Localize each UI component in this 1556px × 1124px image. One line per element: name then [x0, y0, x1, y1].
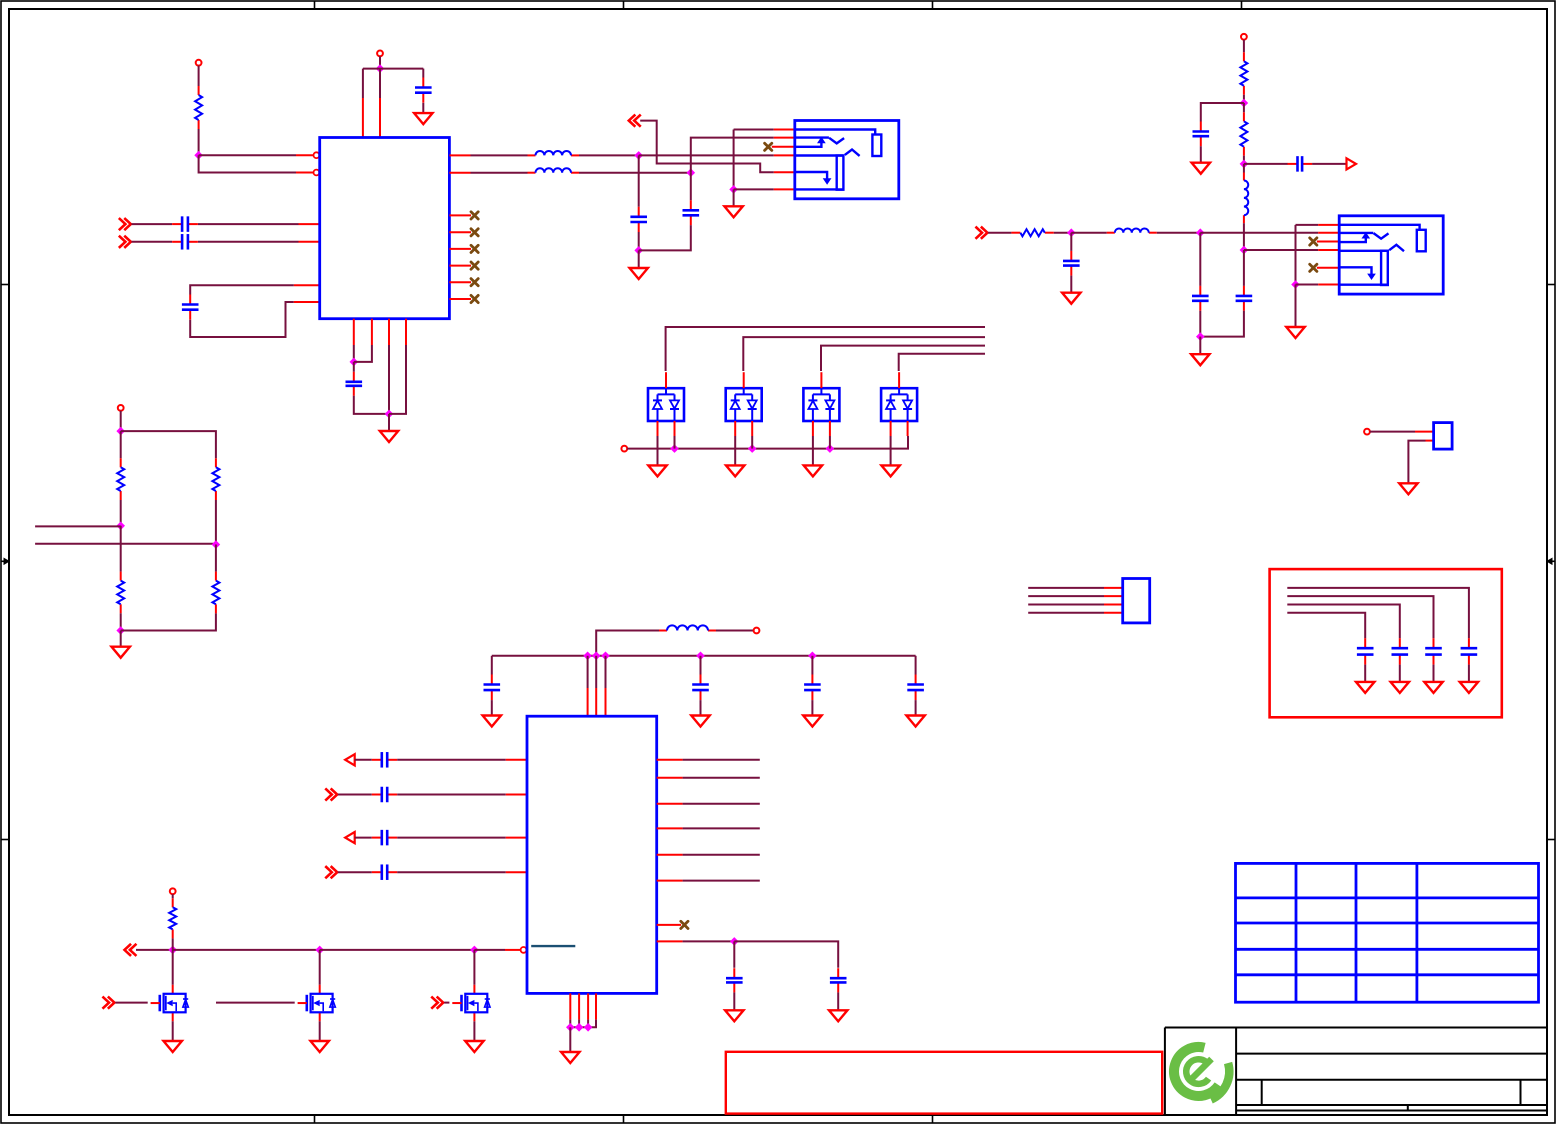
input port chevron C20 row — [326, 789, 337, 799]
ground C23 — [1460, 682, 1478, 693]
capacitor C19 — [372, 752, 397, 768]
node K junction — [826, 444, 835, 453]
node W2 junction — [808, 652, 817, 661]
ground C26 — [1356, 682, 1374, 693]
wire D2 pin to rail — [751, 436, 753, 449]
pin stub U1 pin2 — [296, 172, 313, 174]
capacitor C10 — [1063, 251, 1080, 276]
pin stub J2 pin5 — [1317, 267, 1339, 269]
wire U2 right net 3 — [683, 803, 760, 805]
resistor R9 — [169, 898, 176, 938]
pin stub U2 bottom 4 — [595, 993, 597, 1019]
wire L5 to node R — [1243, 223, 1245, 250]
wire node E to C6 — [638, 155, 640, 206]
power port P7 — [118, 405, 124, 411]
ground node H — [724, 206, 742, 217]
node I junction — [670, 444, 679, 453]
wire rail to C14 — [700, 656, 702, 675]
capacitor C16 — [907, 675, 924, 701]
capacitor C8 — [1193, 122, 1210, 147]
capacitor C7 — [683, 200, 700, 225]
power port P14 — [170, 888, 176, 894]
wire P7 to node L — [120, 411, 122, 431]
pin stub U1 top pin B — [379, 98, 381, 138]
pin stub U1 pin4 — [299, 241, 320, 243]
wire C18 to ground — [837, 992, 839, 1010]
group box bottom — [726, 1052, 1162, 1114]
ground Q2 — [311, 1041, 329, 1052]
wire C25 to ground — [1399, 665, 1401, 682]
frame ticks — [314, 1, 316, 9]
power port P2 — [377, 51, 383, 57]
no-connect flag U1 nc 3 — [471, 245, 478, 252]
wire R2 to node P — [1243, 95, 1245, 103]
wire C13 to ground — [491, 700, 493, 715]
wire J1 pin1 link — [734, 129, 774, 131]
wire P3 to C2 — [132, 223, 173, 225]
wire L2 to node F — [579, 172, 691, 174]
power port P8 — [1241, 34, 1247, 40]
wire U2 power rail — [492, 655, 916, 657]
ground C14 — [691, 716, 709, 727]
wire rail drop 1 — [587, 656, 589, 688]
wire P10 to R4 — [988, 232, 1011, 234]
inductor L4 — [659, 625, 716, 630]
no-connect flag U1 nc 2 — [471, 229, 478, 236]
node R junction — [1240, 246, 1249, 255]
pin stub U2 bottom 1 — [569, 993, 571, 1019]
wire node Q to L5 — [1243, 164, 1245, 173]
wire node to Q2 drain — [319, 950, 321, 985]
wire J4 net 3 — [1028, 604, 1104, 606]
wire node D to ground — [388, 414, 390, 431]
wire C9 to port P9 — [1312, 163, 1346, 165]
pin stub U1 nc pin 1 — [449, 214, 471, 216]
wire P8 to R2 — [1243, 40, 1245, 53]
pin stub U2 C21 row — [506, 837, 527, 839]
wire rail drop 2 — [595, 656, 597, 688]
wire C10 to ground — [1070, 276, 1072, 293]
wire C11 to node S — [1199, 311, 1201, 337]
pin stub U2 top 1 — [587, 688, 589, 716]
wire C12 to node S — [1200, 311, 1244, 337]
wire net MIC2 to D4 — [899, 354, 985, 371]
node rail2 junction — [601, 652, 610, 661]
wire U1 bpin1 to node C — [353, 345, 355, 362]
wire node V to J2 pin6 — [1296, 284, 1319, 286]
capacitor C5 — [346, 372, 363, 396]
capacitor C4 — [182, 295, 199, 320]
wire node X2 to node X3 — [320, 949, 475, 951]
wire node to Q1 drain — [172, 950, 174, 985]
gate port chevron Q1 — [103, 997, 114, 1007]
resistor R8 — [212, 572, 219, 614]
diode D3 — [803, 372, 839, 436]
pin stub J4 pin 2 — [1104, 595, 1123, 597]
wire rail to C13 — [491, 656, 493, 675]
wire C3 to U1 pin4 — [198, 241, 299, 243]
wire port to C21 — [355, 837, 372, 839]
wire node B left drop — [362, 69, 364, 98]
wire P14 to R9 — [172, 894, 174, 898]
pin stub U1 nc pin 5 — [449, 281, 471, 283]
IC U2 body — [527, 716, 657, 993]
wire node B center drop — [379, 69, 381, 98]
ground D4 — [881, 465, 899, 476]
capacitor C15 — [804, 675, 821, 701]
resistor R1 — [195, 86, 202, 129]
transistor Q1 — [151, 985, 189, 1022]
no-connect flag J1 pin3 — [765, 143, 772, 150]
inductor L2 — [528, 168, 580, 172]
wire node L to R5 — [120, 431, 122, 458]
ground D1 — [648, 465, 666, 476]
wire P13 to node X1 — [136, 949, 173, 951]
power port P11 — [1364, 429, 1370, 435]
diode D4 — [881, 372, 917, 436]
wire J4 net 2 — [1028, 595, 1104, 597]
wire node V to ground — [1295, 285, 1297, 328]
pin stub U1 nc pin 3 — [449, 248, 471, 250]
wire box net 4 — [1287, 613, 1365, 639]
pin stub J2 pin1 — [1318, 224, 1339, 226]
wire node S to ground — [1199, 337, 1201, 355]
output port C21 row — [345, 832, 355, 843]
pin stub J4 pin 4 — [1104, 612, 1123, 614]
wire node N bottom rail — [121, 613, 216, 630]
wire left input 2 — [35, 543, 216, 545]
capacitor C13 — [484, 675, 501, 701]
wire box net 1 — [1287, 588, 1469, 638]
frame left center arrow — [1, 560, 6, 562]
node A junction — [194, 151, 203, 160]
pin stub J1 pin6 — [774, 188, 795, 190]
mic port chevron P10 — [976, 228, 987, 238]
pin stub J4 pin 3 — [1104, 604, 1123, 606]
wire D1 gnd drop — [657, 436, 659, 465]
pin stub U1 pin5 — [294, 284, 320, 286]
capacitor C25 — [1392, 638, 1409, 664]
pin stub U1 bottom pin3 — [388, 319, 390, 345]
output port P9 — [1347, 158, 1357, 169]
capacitor C14 — [692, 675, 709, 701]
wire D3 pin to rail — [829, 436, 831, 449]
revision table — [1236, 863, 1539, 1002]
pin stub U2 right 1 — [657, 759, 683, 761]
wire U1 rpin2 to L2 — [471, 172, 528, 174]
wire U1 bpin2 to node C — [354, 345, 372, 362]
node C junction — [350, 358, 359, 367]
wire port to C19 — [355, 759, 372, 761]
ground J3 — [1399, 483, 1417, 494]
pin stub U2 vref pin — [657, 940, 683, 942]
EasyEDA logo — [1174, 1047, 1229, 1100]
ground U1 bottom — [380, 431, 398, 442]
node D junction — [385, 410, 394, 419]
wire D1 pin to rail — [674, 436, 676, 449]
wire R4 to node T — [1054, 232, 1072, 234]
wire U2 bottom bus 3 — [587, 1020, 589, 1028]
frame right center arrow — [1550, 560, 1555, 562]
connector J4 — [1123, 579, 1150, 623]
wire box net 3 — [1287, 605, 1400, 639]
pin stub U2 right 5 — [657, 854, 683, 856]
pin stub J1 pin4 — [774, 154, 795, 156]
wire Q3 source to ground — [473, 1021, 475, 1041]
wire R6 to node N — [120, 613, 122, 630]
node X3 junction — [470, 946, 479, 955]
wire node H to ground — [733, 189, 735, 206]
wire rail to C16 — [915, 656, 917, 675]
capacitor C9 — [1288, 156, 1313, 172]
wire L3 to node U — [1157, 232, 1201, 234]
pin stub J1 pin5 — [774, 171, 795, 173]
wire U2 right net 5 — [683, 854, 760, 856]
node L junction — [116, 427, 125, 436]
pin stub U1 bottom pin4 — [405, 319, 407, 345]
wire D2 gnd drop — [734, 436, 736, 465]
capacitor C26 — [1357, 638, 1374, 664]
wire J4 net 4 — [1028, 612, 1104, 614]
wire left input 1 — [35, 525, 121, 527]
wire gate Q1 — [115, 1002, 147, 1004]
wire P5 to J1 pin5 — [640, 121, 774, 173]
wire U2 vref to node Y — [683, 940, 735, 942]
ground C25 — [1391, 682, 1409, 693]
wire C23 to ground — [1468, 665, 1470, 682]
pin stub U1 pin6 — [294, 301, 320, 303]
node rail0 junction — [583, 652, 592, 661]
resistor R5 — [117, 458, 124, 500]
ground C24 — [1424, 682, 1442, 693]
no-connect flag U1 nc 1 — [471, 212, 478, 219]
node E junction — [634, 151, 643, 160]
wire R9 to node X1 — [172, 938, 174, 950]
gate port chevron Q3 — [432, 997, 443, 1007]
ground divider — [112, 647, 130, 658]
node F junction — [687, 168, 696, 177]
wire C6 to node G — [638, 232, 640, 250]
ground node S — [1191, 354, 1209, 365]
U2 internal mark — [531, 945, 575, 947]
diode D1 — [648, 372, 684, 436]
wire C17 to ground — [733, 992, 735, 1010]
wire C5 to node D — [354, 396, 389, 414]
input port chevron C22 row — [326, 867, 337, 877]
wire node H to J1 pin6 — [734, 188, 774, 190]
wire node P to R3 — [1243, 103, 1245, 112]
resistor R7 — [212, 458, 219, 500]
pin bubble U1 pin2 — [314, 170, 320, 176]
pin stub J1 pin2 — [774, 137, 795, 139]
node W1 junction — [696, 652, 705, 661]
no-connect flag U2 — [681, 921, 688, 928]
no-connect flag U1 nc 6 — [471, 295, 478, 302]
wire node F up to J1 pin2 — [691, 138, 774, 173]
wire node U to C11 — [1199, 233, 1201, 286]
pin stub U2 nc pin — [657, 924, 681, 926]
wire node M to R6 — [120, 526, 122, 572]
wire U1 pin5 to C4 — [190, 285, 294, 294]
node N junction — [116, 626, 125, 635]
wire node Z to ground — [569, 1027, 571, 1052]
wire U1 bpin4 to node D — [389, 345, 406, 414]
pin stub U1 pin1 — [296, 154, 313, 156]
ground C17 — [725, 1010, 743, 1021]
wire U2 bottom bus — [569, 1020, 571, 1028]
wire J1 pin1 drop — [733, 130, 735, 190]
wire port to C20 — [338, 794, 372, 796]
wire node R to C12 — [1243, 250, 1245, 286]
wire C16 to ground — [915, 700, 917, 715]
ground C1 — [414, 113, 432, 124]
wire R3 to node Q — [1243, 156, 1245, 164]
wire node A to U1 pin 1 — [199, 154, 296, 156]
ground D2 — [726, 465, 744, 476]
wire rail to C15 — [811, 656, 813, 675]
pin stub U2 C22 row — [506, 871, 527, 873]
pin stub J2 pin3 — [1317, 241, 1339, 243]
ground node V — [1286, 327, 1304, 338]
ground Q1 — [164, 1041, 182, 1052]
node Z3 junction — [584, 1023, 593, 1032]
node J junction — [748, 444, 757, 453]
wire ESD rail — [627, 436, 908, 449]
ground node G — [630, 268, 648, 279]
wire P11 to J3 pin1 — [1370, 431, 1415, 433]
wire node P to C8 — [1201, 103, 1244, 122]
wire node X3 to U2 en pin — [474, 949, 505, 951]
node G junction — [634, 246, 643, 255]
node S junction — [1196, 332, 1205, 341]
wire box net 2 — [1287, 596, 1433, 638]
wire P1 to R1 — [198, 66, 200, 86]
wire node B rail — [363, 68, 423, 70]
capacitor C6 — [630, 207, 647, 232]
wire J2 pin1 drop — [1295, 225, 1297, 285]
wire L4 to port P12 — [716, 630, 754, 632]
pin stub J2 pin6 — [1318, 284, 1339, 286]
wire R7 to node O — [215, 500, 217, 545]
node X1 junction — [168, 946, 177, 955]
wire gate Q2 — [216, 1002, 295, 1004]
wire R5 to node M — [120, 500, 122, 526]
pin stub U1 bottom pin1 — [353, 319, 355, 345]
wire U1 rpin1 to L1 — [471, 154, 528, 156]
wire node O to R8 — [215, 545, 217, 572]
transistor Q2 — [298, 985, 336, 1022]
pin stub U2 right 4 — [657, 827, 683, 829]
wire J2 pin1 link — [1296, 224, 1319, 226]
receive port chevron P5 — [629, 115, 640, 125]
node B junction — [376, 64, 385, 73]
pin stub U1 right pin2 — [449, 172, 470, 174]
pin stub U2 top 3 — [605, 688, 607, 716]
wire node N to ground — [120, 631, 122, 647]
pin stub U2 top 2 — [595, 688, 597, 716]
pin stub U2 right 2 — [657, 777, 683, 779]
wire rail up link — [596, 631, 667, 656]
transistor Q3 — [452, 985, 490, 1022]
node H junction — [729, 185, 738, 194]
no-connect flag U1 nc 5 — [471, 279, 478, 286]
pin stub U2 C19 row — [506, 759, 527, 761]
input port chevron P4 — [120, 237, 131, 247]
input port chevron P3 — [120, 219, 131, 229]
wire U2 right net 4 — [683, 827, 760, 829]
node V junction — [1291, 280, 1300, 289]
wire Q2 source to ground — [319, 1021, 321, 1041]
wire node Q to C9 — [1244, 163, 1288, 165]
wire node X1 to node X2 — [173, 949, 320, 951]
wire net HPL to D1 — [666, 327, 985, 371]
pin stub U1 top pin A — [362, 98, 364, 138]
diode D2 — [726, 372, 762, 436]
node X2 junction — [315, 946, 324, 955]
pin stub U1 bottom pin2 — [371, 319, 373, 345]
ground D3 — [804, 465, 822, 476]
pin stub J2 pin2 — [1318, 232, 1339, 234]
capacitor C2 — [172, 216, 198, 232]
no-connect flag U1 nc 4 — [471, 262, 478, 269]
wire P2 to node B — [379, 56, 381, 68]
wire node E to J1 pin4 — [639, 154, 774, 156]
pin stub J3 pin2 — [1426, 440, 1434, 442]
node Y junction — [730, 937, 739, 946]
wire node Y to C17 — [733, 941, 735, 967]
group box capacitors — [1270, 569, 1502, 717]
wire J3 pin2 to ground — [1408, 441, 1425, 484]
power port P1 — [196, 60, 202, 66]
wire C8 to ground — [1200, 146, 1202, 163]
resistor R6 — [117, 572, 124, 614]
wire C22 to U2 — [397, 871, 506, 873]
no-connect flag J2 pin3 — [1310, 238, 1317, 245]
wire node T to C10 — [1070, 233, 1072, 251]
wire node C to C5 — [353, 362, 355, 372]
wire C20 to U2 — [397, 794, 506, 796]
node M junction — [116, 522, 125, 531]
pin bubble U2 en pin — [521, 947, 527, 953]
wire net HPR to D2 — [743, 337, 985, 371]
power port P6 — [621, 446, 627, 452]
pin stub U2 right 3 — [657, 803, 683, 805]
inductor L3 — [1107, 228, 1157, 232]
wire node B to C1 — [422, 69, 424, 78]
wire P4 to C3 — [132, 241, 173, 243]
pin stub U1 nc pin 4 — [449, 265, 471, 267]
wire C15 to ground — [811, 700, 813, 715]
pin stub J4 pin 1 — [1104, 587, 1123, 589]
microphone jack J2 — [1339, 216, 1443, 294]
pin stub J2 pin4 — [1318, 249, 1339, 251]
pin stub U2 bottom 3 — [587, 993, 589, 1019]
node rail1 junction — [592, 652, 601, 661]
wire node to Q3 drain — [473, 950, 475, 985]
power port P12 — [754, 628, 760, 634]
wire U2 right net 2 — [683, 777, 760, 779]
inductor L5 — [1244, 173, 1248, 224]
capacitor C22 — [372, 864, 397, 880]
wire C26 to ground — [1364, 665, 1366, 682]
pin stub U1 right pin1 — [449, 154, 470, 156]
resistor R3 — [1240, 112, 1247, 155]
wire C14 to ground — [700, 700, 702, 715]
node Z2 junction — [575, 1023, 584, 1032]
ground U2 bottom — [561, 1052, 579, 1063]
capacitor C20 — [372, 787, 397, 803]
wire net stub 1 — [984, 326, 986, 328]
